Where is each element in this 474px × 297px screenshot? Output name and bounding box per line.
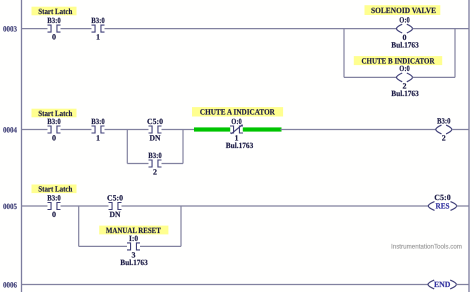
- svg-text:END: END: [434, 280, 451, 289]
- wire rung 0003 branch: coil O:0/2 to branch close: [413, 76, 456, 78]
- contact XIC I:0/3 MANUAL RESET: [127, 234, 140, 260]
- svg-text:Start Latch: Start Latch: [38, 7, 72, 16]
- contact XIC C5:0/DN (rung 0005): [107, 193, 123, 219]
- wire rung 0004: branch close to energized segment: [183, 129, 194, 131]
- wire rung 0004: rail to contact B3:0/0: [22, 129, 48, 131]
- wire rung 0003: coil O:0/0 to right rail: [413, 28, 470, 30]
- svg-text:B3:0: B3:0: [47, 193, 61, 202]
- label SOLENOID VALVE: [365, 5, 441, 15]
- svg-text:I:0: I:0: [129, 234, 138, 243]
- wire rung 0004: green segment to coil B3:0/2: [280, 129, 436, 131]
- right power rail: [468, 0, 470, 292]
- svg-text:O:0: O:0: [231, 117, 242, 126]
- label Start Latch (rung 0003): [32, 7, 77, 16]
- wire rung 0005: contact C5:0/DN to RES coil: [122, 205, 429, 207]
- contact XIC B3:0/0 Start Latch (rung 0005): [47, 193, 61, 219]
- svg-text:2: 2: [153, 168, 157, 177]
- svg-text:0006: 0006: [3, 280, 17, 289]
- contact XIO O:0/1 CHUTE A INDICATOR (energized): [230, 117, 243, 143]
- svg-text:B3:0: B3:0: [47, 16, 61, 25]
- wire rung 0003: between contacts: [61, 28, 92, 30]
- svg-text:Bul.1763: Bul.1763: [391, 40, 419, 49]
- wire rung 0004: contact C5:0/DN to branch close: [162, 129, 184, 131]
- wire rung 0005 branch: to contact I:0/3: [79, 245, 127, 247]
- label Start Latch (rung 0005): [32, 185, 77, 194]
- branch close vertical (rung 0004): [182, 130, 184, 164]
- svg-text:2: 2: [442, 134, 446, 143]
- energized (green) wire segment after contact O:0/1: [243, 127, 282, 131]
- wire rung 0004 branch: to contact B3:0/2: [127, 163, 148, 165]
- branch left vertical (rung 0003): [343, 29, 345, 78]
- wire rung 0006: END coil to right rail: [456, 284, 469, 286]
- svg-text:B3:0: B3:0: [91, 16, 105, 25]
- branch open vertical (rung 0005): [78, 206, 80, 246]
- contact XIC B3:0/2 (rung 0004 branch): [148, 151, 162, 177]
- label Start Latch (rung 0004): [32, 109, 77, 118]
- svg-text:Bul.1763: Bul.1763: [226, 141, 254, 150]
- coil OTE B3:0/2: [436, 116, 452, 142]
- svg-text:Bul.1763: Bul.1763: [120, 258, 148, 267]
- svg-text:B3:0: B3:0: [148, 151, 162, 160]
- label CHUTE B INDICATOR: [354, 56, 442, 65]
- svg-text:0004: 0004: [3, 125, 17, 134]
- coil OTE O:0/2 CHUTE B INDICATOR: [391, 64, 419, 98]
- svg-text:B3:0: B3:0: [91, 117, 105, 126]
- coil END: [428, 280, 456, 289]
- wire rung 0005: RES coil to right rail: [457, 205, 470, 207]
- svg-text:C5:0: C5:0: [434, 193, 450, 202]
- svg-text:InstrumentationTools.com: InstrumentationTools.com: [391, 243, 462, 250]
- svg-text:C5:0: C5:0: [147, 117, 163, 126]
- coil RES C5:0 (reset): [428, 202, 456, 211]
- svg-text:DN: DN: [110, 210, 121, 219]
- wire rung 0003 branch: to coil O:0/2: [344, 76, 397, 78]
- branch right vertical (rung 0003): [454, 29, 456, 78]
- svg-text:B3:0: B3:0: [47, 117, 61, 126]
- wire rung 0005 branch: contact I:0/3 to branch close: [140, 245, 181, 247]
- coil OTE O:0/0 SOLENOID VALVE: [391, 15, 419, 49]
- energized (green) wire segment before contact O:0/1: [194, 127, 230, 131]
- svg-text:DN: DN: [150, 134, 161, 143]
- svg-text:0: 0: [52, 134, 56, 143]
- contact XIC C5:0/DN (rung 0004): [147, 117, 163, 143]
- svg-text:Bul.1763: Bul.1763: [391, 89, 419, 98]
- svg-text:O:0: O:0: [399, 15, 410, 24]
- svg-text:1: 1: [96, 134, 100, 143]
- svg-text:O:0: O:0: [399, 64, 410, 73]
- contact XIC B3:0/1 (rung 0003): [91, 16, 105, 42]
- svg-text:B3:0: B3:0: [437, 116, 451, 125]
- contact XIC B3:0/0 Start Latch (rung 0003): [47, 16, 61, 42]
- branch close vertical (rung 0005): [180, 206, 182, 246]
- label MANUAL RESET: [99, 226, 168, 235]
- svg-text:C5:0: C5:0: [107, 193, 123, 202]
- svg-text:CHUTE B INDICATOR: CHUTE B INDICATOR: [362, 56, 435, 65]
- wire rung 0006: rail to END coil: [22, 284, 429, 286]
- wire rung 0004: between contacts: [61, 129, 92, 131]
- wire rung 0004: contact B3:0/1 to contact C5:0/DN: [105, 129, 149, 131]
- wire rung 0005: rail to contact B3:0/0: [22, 205, 48, 207]
- contact XIC B3:0/0 Start Latch (rung 0004): [47, 117, 61, 143]
- branch open vertical (rung 0004): [126, 130, 128, 164]
- svg-text:0005: 0005: [3, 202, 17, 211]
- wire rung 0003: rail to contact B3:0/0: [22, 28, 48, 30]
- left power rail: [21, 0, 23, 292]
- wire rung 0004 branch: contact B3:0/2 to branch close: [162, 163, 184, 165]
- svg-text:RES: RES: [436, 202, 450, 211]
- svg-text:1: 1: [96, 33, 100, 42]
- wire rung 0004: coil B3:0/2 to right rail: [452, 129, 469, 131]
- svg-text:SOLENOID VALVE: SOLENOID VALVE: [371, 6, 436, 15]
- svg-text:CHUTE A INDICATOR: CHUTE A INDICATOR: [200, 108, 275, 117]
- label CHUTE A INDICATOR: [192, 107, 283, 117]
- svg-text:Start Latch: Start Latch: [38, 185, 72, 194]
- contact XIC B3:0/1 (rung 0004): [91, 117, 105, 143]
- svg-text:0003: 0003: [3, 24, 17, 33]
- svg-text:0: 0: [52, 33, 56, 42]
- wire rung 0005: contact B3:0/0 to contact C5:0/DN: [61, 205, 109, 207]
- svg-text:0: 0: [52, 210, 56, 219]
- wire rung 0003: contact B3:0/1 to coil branch: [105, 28, 397, 30]
